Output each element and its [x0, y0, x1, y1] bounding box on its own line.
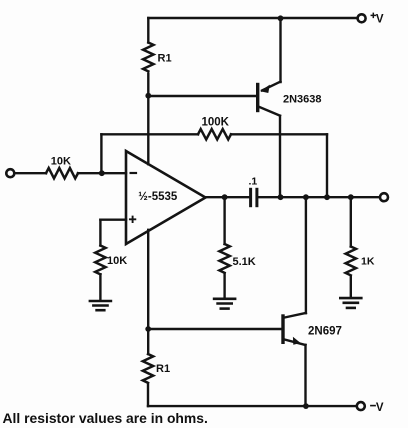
svg-text:2N3638: 2N3638	[283, 94, 322, 106]
node A junction dot (inverting input)	[99, 170, 105, 176]
ground (left)	[90, 301, 111, 310]
node junction dot 1K	[348, 194, 354, 200]
wire feedback left segment	[101, 133, 198, 135]
wire 5.1K to ground	[223, 274, 225, 298]
node output junction dot (5.1K)	[222, 194, 228, 200]
wire feedback down to output bus	[326, 134, 328, 197]
input terminal	[6, 169, 14, 177]
wire node C down to R1	[147, 329, 149, 354]
resistor 10K (noninverting to ground, vertical)	[95, 246, 105, 275]
wire rail corner down to R1	[147, 18, 149, 43]
ground (right)	[340, 298, 361, 308]
wire input to 10K	[15, 172, 46, 174]
output bus wire (cap to output terminal)	[258, 196, 379, 198]
wire feedback right segment	[231, 133, 327, 135]
svg-text:V: V	[376, 402, 384, 414]
resistor R1 (top, vertical)	[143, 43, 153, 72]
wire R1 to bottom rail	[147, 383, 149, 406]
wire 1K to ground	[350, 276, 352, 297]
node feedback junction dot on output bus	[324, 194, 330, 200]
op-amp U1 half 5535	[126, 151, 206, 244]
label -V	[371, 402, 384, 414]
svg-text:.1: .1	[249, 176, 258, 188]
svg-text:½-5535: ½-5535	[138, 191, 178, 203]
wire 1K down	[350, 197, 352, 246]
capacitor C1 0.1	[249, 176, 258, 206]
wire noninverting input left	[100, 218, 126, 220]
resistor 100K (feedback, horizontal)	[198, 129, 231, 139]
label +V	[371, 13, 384, 25]
wire R1 to node B	[147, 74, 149, 96]
node junction dot collector Q2	[303, 194, 309, 200]
node junction dot bottom rail / emitter	[303, 403, 309, 409]
top supply rail	[148, 17, 356, 19]
node C junction dot	[145, 326, 151, 332]
svg-text:10K: 10K	[51, 156, 71, 168]
svg-text:100K: 100K	[202, 117, 230, 129]
output bus wire (apex to cap)	[206, 196, 250, 198]
wire node B down to op-amp V+ pin	[147, 96, 149, 165]
output terminal	[380, 193, 388, 201]
svg-text:All resistor values are in ohm: All resistor values are in ohms.	[3, 410, 208, 426]
ground (middle)	[214, 299, 235, 309]
svg-text:R1: R1	[158, 53, 172, 65]
wire 10K to ground	[99, 274, 101, 300]
wire node C to 2N697 base	[148, 328, 281, 330]
svg-text:R1: R1	[156, 363, 170, 375]
resistor 10K (input, horizontal)	[46, 168, 78, 178]
node B junction dot	[145, 93, 151, 99]
wire 5.1K down	[223, 197, 225, 244]
svg-text:1K: 1K	[361, 256, 375, 268]
node junction dot collector Q1	[278, 194, 284, 200]
-V terminal	[357, 402, 365, 410]
transistor Q2 2N697	[283, 197, 342, 406]
svg-text:10K: 10K	[107, 255, 127, 267]
resistor 1K (vertical)	[346, 247, 356, 276]
wire noninverting down to 10K	[99, 220, 101, 246]
wire op-amp V- pin down to node C	[147, 230, 149, 329]
svg-text:5.1K: 5.1K	[233, 256, 256, 268]
node junction dot top rail / emitter	[278, 15, 284, 21]
wire 10K to inverting input	[78, 172, 126, 174]
wire node B to 2N3638 base	[148, 95, 256, 97]
wire feedback up from node A	[100, 134, 102, 173]
+V terminal	[358, 14, 366, 22]
resistor 5.1K (vertical)	[219, 244, 229, 273]
svg-text:V: V	[376, 14, 384, 26]
transistor Q1 2N3638	[258, 18, 322, 197]
resistor R1 (bottom, vertical)	[143, 354, 153, 383]
bottom supply rail	[148, 405, 356, 407]
svg-text:2N697: 2N697	[308, 326, 342, 338]
